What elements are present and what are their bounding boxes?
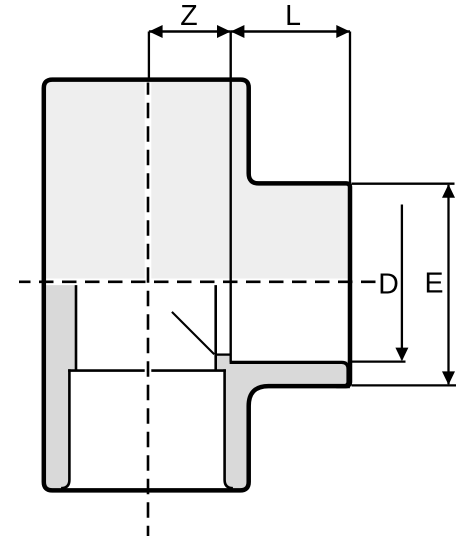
sectioned wall material (darker grey, below centreline)	[0, 282, 472, 538]
arrowhead L left	[231, 25, 245, 38]
extension line L (branch end face)	[349, 32, 351, 184]
arrowhead E down	[442, 371, 455, 385]
centreline white halo (horizontal)	[19, 278, 376, 285]
branch-socket inner surface line	[230, 362, 348, 386]
extension line Z (from centreline)	[148, 32, 150, 80]
bore + socket cavity (white section cut-out)	[61, 282, 348, 488]
arrowhead Z left	[149, 25, 163, 38]
horizontal centreline	[19, 280, 376, 283]
bottom-socket shoulder line	[68, 369, 226, 372]
arrowhead E up	[442, 184, 455, 198]
svg-text:Z: Z	[180, 0, 197, 32]
extension line Z/L (branch socket depth)	[229, 32, 231, 363]
centreline white halo (vertical)	[145, 83, 152, 537]
vertical centreline	[147, 83, 150, 537]
svg-text:L: L	[285, 0, 301, 32]
svg-text:E: E	[424, 268, 443, 300]
arrowhead Z right	[217, 25, 231, 38]
branch bore step line	[215, 353, 231, 355]
extension line E bottom	[352, 384, 457, 386]
svg-text:D: D	[378, 268, 399, 300]
socket mouth inner rounding	[336, 374, 350, 388]
bore wall line (left)	[75, 282, 78, 371]
bottom-socket wall line (right)	[225, 369, 233, 488]
leader line to socket stop	[172, 312, 214, 354]
tee body fill (external view, light grey)	[44, 80, 350, 491]
bottom-socket wall line (left)	[61, 369, 69, 488]
arrowhead D down	[395, 348, 408, 362]
extension line E top	[352, 183, 455, 185]
tee outer outline	[44, 80, 350, 491]
arrowhead L right	[336, 25, 350, 38]
extension line D bottom	[352, 360, 406, 362]
dimension line E	[447, 185, 449, 384]
dimension line Z	[149, 30, 231, 32]
dimension line L	[231, 30, 350, 32]
bore wall line (right) / branch-stop face	[214, 282, 217, 371]
dimension line D	[401, 205, 403, 360]
